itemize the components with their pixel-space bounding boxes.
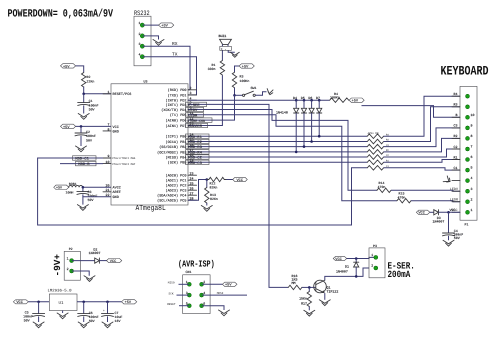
pin 21 AREF [103,188,121,195]
svg-text:P1: P1 [465,223,469,227]
svg-text:-9V+: -9V+ [52,254,63,277]
svg-text:10mH: 10mH [66,191,74,195]
pin 8 GND [103,127,119,134]
switch SW1 [243,86,257,96]
svg-text:R2: R2 [454,134,458,138]
junction D1 top [355,257,358,260]
wire R13 to ground [206,203,208,206]
resistor R3 100Kn [232,72,249,88]
svg-text:R1: R1 [454,155,458,159]
wire C7 to ground [107,316,109,322]
svg-text:+ -: + - [221,47,227,51]
power flag VCC at P1 pin1 [416,208,455,216]
svg-text:KBD-C3: KBD-C3 [188,161,202,166]
svg-text:10: 10 [106,160,110,164]
U3 pin numbers PB bank [190,132,194,162]
U3 pin labels PC0-PC5 [157,174,186,204]
junction R3/SW1/STORE-COD [233,94,236,97]
wire VCC flag to D3 [430,211,434,213]
power flag VCC at regulator input [13,300,28,305]
svg-text:KBD-B: KBD-B [78,162,90,167]
svg-text:U1: U1 [59,301,65,306]
junction C6 [82,301,85,304]
CN1 pin numbers [186,280,206,305]
resistor R12 82Kn [207,177,227,189]
ground at C2 [76,146,87,152]
connector J1 RS232 [134,10,151,66]
svg-text:(XCK/T0) PD4: (XCK/T0) PD4 [161,108,186,113]
svg-text:2: 2 [67,267,69,271]
resistor R14 470n [377,181,391,193]
wire junction to C2 [80,126,82,133]
junction R2/C1 [82,93,85,96]
svg-text:15Kn: 15Kn [299,297,307,301]
power flag +5V at R3 [239,64,254,70]
capacitor C5 100nF 50V [23,302,45,323]
capacitor C3 100nF 50V [77,187,98,202]
resistor network RN row5 [367,154,389,159]
net MISO wire CN1 pin1 [168,282,190,285]
wire P2 pin1 to D2 [72,260,95,262]
svg-text:(T1) PD5: (T1) PD5 [170,113,187,118]
ground at CN1 pin6 [219,310,230,316]
svg-text:1: 1 [371,253,373,257]
svg-text:5: 5 [471,166,473,170]
svg-text:STORE-COD: STORE-COD [187,119,205,123]
svg-text:16V: 16V [115,319,121,323]
ground at Q1 emitter [319,300,330,306]
capacitor C1 100nF 50V [78,99,99,111]
wire junction to C1 [83,94,85,103]
svg-text:3: 3 [186,291,188,295]
svg-text:+5V: +5V [161,24,168,29]
wire D2 to VCC flag [99,260,106,262]
svg-text:C2: C2 [454,145,458,149]
svg-text:7: 7 [471,145,473,149]
ground at C1 [78,114,89,120]
svg-text:BUZZER: BUZZER [188,124,202,129]
P1 pin numbers [471,113,475,212]
svg-text:(MISO) PB4: (MISO) PB4 [165,155,186,160]
svg-text:2: 2 [371,264,373,268]
svg-text:GND: GND [113,129,119,134]
wire C3 to ground [82,197,84,205]
U3 pin labels PB0-PB5 [157,135,186,166]
svg-text:50V: 50V [89,108,95,112]
pin 22 GND [106,193,119,200]
wire Q1 emitter to ground [324,293,326,300]
svg-text:+5V: +5V [63,125,70,130]
svg-text:6: 6 [471,155,473,159]
svg-text:MM: MM [292,281,296,285]
U3 pin labels PD0-PD7 [161,88,186,129]
svg-text:1N4148: 1N4148 [276,110,288,114]
resistor R15 470n [397,191,411,203]
net LEDV wire PD4 [188,110,377,191]
svg-text:(ICP1) PB0: (ICP1) PB0 [165,135,186,140]
power flag VCC at R12 [233,177,248,183]
wire C5 to ground [38,316,40,322]
ground at RS232 pin2 [153,40,164,46]
svg-text:330n: 330n [208,67,216,71]
svg-text:POWERDOWN= 0,063mA/9V: POWERDOWN= 0,063mA/9V [8,7,115,20]
svg-text:9: 9 [108,154,110,158]
resistor R1 330n [208,61,225,76]
ground at U1 [57,313,68,319]
wire C3 to GND pin 22 [83,194,111,196]
resistor R17 15Kn [299,287,311,306]
wire R4 to +5V [348,99,350,101]
op IC U3 ATmega8L [111,80,188,213]
svg-text:50V: 50V [89,319,95,323]
diode D7 1N4148 [316,96,322,137]
resistor R4 100Kn [330,92,349,103]
svg-text:P2: P2 [69,247,73,251]
svg-text:R4: R4 [454,92,458,96]
svg-text:1: 1 [471,208,473,212]
junction C5 [37,301,40,304]
svg-text:22: 22 [106,193,110,197]
resistor network RN row2 [367,139,389,144]
svg-text:1N4007: 1N4007 [336,270,348,274]
wire R2 to RESET pin [84,87,111,94]
power flag +5V at R4 [349,98,364,104]
power flag +5V at RS232 [159,23,174,29]
capacitor C2 100nF 50V [75,130,96,142]
junction C7 [106,301,109,304]
resistor network RN row3 [367,144,389,149]
wire C1 to ground [83,105,85,113]
junction VCC/C4 [447,211,450,214]
net KBD-C3 wire PB5 [188,161,367,163]
svg-text:LEDR: LEDR [450,198,458,203]
svg-text:VCC: VCC [450,208,456,212]
net SCK wire CN1 pin3 [169,292,190,295]
net label LEDV at PD4 [186,107,204,113]
pin 10 XTAL2 PB7 [103,160,136,166]
net KBD-C2 wire PB4 [188,156,367,158]
svg-text:2: 2 [190,86,192,90]
regulator U1 LM2936-5.0 [48,289,78,311]
ground at R13 [201,206,212,212]
net label E-SER at PD3 [186,102,207,108]
U3 right pin stubs PD0-PD7 pins 2,3,4,5,6,11,12,13 [188,90,197,126]
ground at P1 pin 4 [443,176,452,185]
svg-text:(SS/OC1B) PB2: (SS/OC1B) PB2 [159,145,186,150]
capacitor C7 10uF 16V polarized [102,302,123,323]
inductor BOB1 10mH [54,182,83,195]
diode D6 1N4148 [308,96,314,143]
power flag +5V at U1 output [122,300,137,306]
net TX wire RS232 pin4 to PD1 [142,52,196,95]
ground at SW1 [266,89,273,96]
svg-text:+5V: +5V [56,186,62,190]
svg-text:100Kn: 100Kn [240,79,250,83]
svg-text:50V: 50V [86,138,92,142]
wire R1 to BUZZER row [220,75,222,125]
net label KBD-R4 [186,150,210,156]
net BUZZER wire PD7 [188,125,222,127]
svg-text:BUZ1: BUZ1 [219,34,227,38]
svg-text:D1: D1 [345,264,349,268]
svg-text:R3: R3 [454,103,458,107]
svg-text:10: 10 [471,113,475,117]
power flag +5V at CN1 [222,282,237,288]
svg-text:SCK: SCK [169,292,174,295]
wire RN row5 to keyboard pin C2 [384,149,460,157]
svg-text:R17: R17 [301,302,307,306]
net divider wire PC5 to R12/R13 [188,180,207,201]
wire +5V to R2 [76,66,84,73]
svg-text:RX: RX [172,41,178,47]
resistor R2 22Kn [82,73,95,88]
svg-text:B: B [456,113,458,117]
ground at R17 [304,310,315,316]
svg-text:GND: GND [113,195,119,200]
wire +5V to R3 [235,66,240,72]
net E-SER wire PD3 [188,104,288,287]
wire U1 output to +5V flag [77,301,122,303]
net label KBD-R1 [186,134,210,140]
net label KBD-C1 at pin9 [73,156,97,162]
title POWERDOWN annotation [8,7,115,20]
svg-text:(TXD) PD1: (TXD) PD1 [168,93,187,98]
svg-text:VCC: VCC [335,257,341,262]
svg-text:TIP122: TIP122 [327,289,339,293]
resistor R16 1K5 [288,274,302,290]
transistor Q1 TIP122 [314,280,339,293]
svg-text:7: 7 [108,122,110,126]
resistor network RN row6 [367,160,389,165]
svg-text:+5V: +5V [242,64,249,69]
svg-text:LEDV: LEDV [450,187,459,192]
svg-text:KBD-C1: KBD-C1 [75,157,89,162]
ground at C5 [33,322,44,328]
svg-text:24: 24 [190,176,194,180]
net label STORE-COD at PD6 [186,118,213,123]
svg-text:(INT1) PD3: (INT1) PD3 [165,103,186,108]
svg-text:82Kn: 82Kn [210,186,218,190]
svg-text:3: 3 [471,187,473,191]
svg-text:3: 3 [190,91,192,95]
P1 pin stubs [452,96,460,212]
wire R14 to keyboard pin LEDV [391,189,460,192]
svg-text:(ADC0) PC0: (ADC0) PC0 [165,174,186,179]
wire RS232 pin1 to +5V [142,24,158,26]
net KBD-B wire pin10 [60,163,103,165]
U3 pin numbers PD bank [190,86,194,126]
svg-text:(SCK) PB5: (SCK) PB5 [168,161,187,166]
svg-text:SW1: SW1 [251,86,257,90]
wire BOB1 to AVCC pin 20 [83,186,111,188]
ground at C3 [77,205,88,211]
wire P2 pin2 to ground [72,271,90,276]
wire D3 to P1 VCC pin [439,211,461,213]
pin 9 XTAL1 PB6 [103,154,136,160]
svg-text:+5V: +5V [125,300,132,305]
svg-text:1: 1 [108,90,110,94]
net label KBD-C3 [186,160,210,166]
svg-text:9: 9 [471,124,473,128]
net KBD-C1 wire pin9 loop around MCU [38,158,368,225]
net RX wire RS232 pin3 to PD0 [142,41,190,90]
svg-text:1: 1 [67,257,69,261]
svg-text:27: 27 [190,191,194,195]
capacitor C6 100nF 50V [78,302,99,323]
svg-text:23: 23 [190,171,194,175]
net RESET wire CN1 pin5 [167,303,189,306]
svg-text:50V: 50V [88,198,94,202]
svg-text:TX: TX [172,52,178,58]
svg-text:+5V: +5V [352,99,359,104]
wire R12 to VCC flag [226,179,232,181]
wire RN row7 to keyboard pin C1 [384,168,460,170]
svg-text:VCC: VCC [237,178,243,183]
svg-text:82Kn: 82Kn [210,197,218,201]
net KBD-R2 wire PB1 [188,141,367,143]
power flag +5V at R2 [61,64,76,70]
svg-text:P3: P3 [373,244,377,248]
svg-text:(OC1A) PB1: (OC1A) PB1 [165,140,186,145]
wire R16 to Q1 base [302,286,316,288]
svg-text:(ADC1) PC1: (ADC1) PC1 [165,179,186,184]
wire buzzer minus to ground [228,50,235,52]
pin 7 VCC [108,122,119,129]
buzzer BUZ1 [219,34,232,51]
svg-text:(AIN0) PD6: (AIN0) PD6 [165,119,186,124]
wire C2 to ground [80,136,82,146]
wire RS232 pin2 to ground [142,36,158,40]
label E-SER. 200mA [388,261,415,281]
svg-text:ATmega8L: ATmega8L [136,204,166,212]
svg-text:2: 2 [203,280,205,284]
net MOSI wire CN1 pin4 [202,292,247,295]
capacitor C4 100nF 50V [443,212,464,240]
svg-text:RESET/PC6: RESET/PC6 [113,92,132,97]
power flag VCC at D2 [107,259,122,265]
wire RN row4 to keyboard pin R2 [384,138,460,152]
net LEDR wire PD5 [188,115,397,201]
net label KBD-R2 [186,139,210,145]
wire RN row1 to keyboard pin R4 [384,96,460,136]
wire CN1 pin2 to +5V [202,283,223,285]
svg-text:1: 1 [186,280,188,284]
svg-text:(RXD) PD0: (RXD) PD0 [168,88,187,93]
svg-text:4: 4 [203,291,205,295]
junction R12/R13 [206,178,209,181]
net label KBD-B at pin10 [76,161,97,167]
ground at buzzer [230,52,239,57]
diode D2 1N4007 [89,247,101,263]
connector CN1 AVR-ISP [183,270,210,313]
svg-text:C3: C3 [454,124,458,128]
net STORE-COD wire PD6 to SW1 junction [188,95,235,120]
wire junction to SW1 [235,94,243,96]
connector P3 E-SER [369,244,385,278]
svg-text:+: + [103,310,105,313]
ground at C7 [102,322,113,328]
junction BOB1/C3 [82,186,85,189]
svg-text:(AIN1) PD7: (AIN1) PD7 [165,124,186,129]
wire C4 to ground [448,236,450,241]
net label BUZZER at PD7 [186,123,208,129]
power flag +5V at VCC pin [61,124,76,130]
net B wire PD2 to diodes and R4 [188,99,330,101]
diode D5 1N4148 [301,96,307,148]
svg-text:(SCL/ADC5) PC5: (SCL/ADC5) PC5 [157,199,186,204]
resistor R13 82Kn [205,180,218,204]
net label KBD-R3 [186,144,210,150]
svg-text:20: 20 [106,183,110,187]
wire R17 to ground [308,307,310,311]
svg-text:VCC: VCC [418,211,424,216]
resistor network RN row7 [367,165,389,170]
wire RN row2 to keyboard pin R3 [384,107,460,142]
svg-text:25: 25 [190,181,194,185]
wire Q1 collector to P3 pin2 [325,268,369,280]
ground at P2 pin2 [84,276,95,282]
wire R3 to junction [234,88,236,96]
svg-text:XTAL2/TOSC2 PB7: XTAL2/TOSC2 PB7 [112,163,136,166]
wire R15 to keyboard pin LEDR [411,201,460,202]
svg-text:50V: 50V [24,319,30,323]
svg-text:(SDA/ADC4) PC4: (SDA/ADC4) PC4 [157,194,186,199]
svg-text:50V: 50V [454,236,460,240]
resistor network RN 47Kn row1 [367,132,389,139]
net KBD-R4 wire PB3 [188,151,367,153]
svg-text:KEYBOARD: KEYBOARD [441,65,489,79]
wire VCC to P3 pin1 [347,257,376,258]
net label LEDR at PD5 [186,113,204,119]
svg-text:2: 2 [471,197,473,201]
svg-text:22Kn: 22Kn [87,79,95,83]
svg-text:VCC: VCC [113,125,119,130]
svg-text:CN1: CN1 [186,270,192,274]
connector P2 9V input [64,247,80,280]
svg-text:+5V: +5V [225,283,232,288]
connector P1 KEYBOARD [460,86,477,226]
svg-text:8: 8 [471,134,473,138]
svg-text:C1: C1 [454,166,458,170]
wire buzzer plus to R1 [221,50,223,60]
svg-text:(AVR-ISP): (AVR-ISP) [178,260,215,271]
svg-text:5: 5 [186,302,188,306]
CN1 green pins [187,282,203,307]
P1 green pins 12..1 [466,94,470,214]
junction VCC/C2 [80,125,83,128]
svg-text:(ADC2) PC2: (ADC2) PC2 [165,184,186,189]
svg-text:(ADC3) PC3: (ADC3) PC3 [165,189,186,194]
junction R16/R17 [308,286,311,289]
wire +5V to VCC pin 7 [76,125,111,127]
svg-text:8: 8 [108,127,110,131]
svg-text:+5V: +5V [63,64,70,69]
svg-text:MOSI: MOSI [217,292,224,295]
svg-text:AREF: AREF [113,190,121,195]
U3 right pin stubs PC0-PC5 pins 23-28 [188,175,197,200]
svg-text:MISO: MISO [168,282,175,285]
svg-text:1N4007: 1N4007 [433,219,445,223]
pin 1 RESET/PC6 [103,90,131,97]
svg-text:LM2936-5.0: LM2936-5.0 [48,289,73,294]
svg-text:21: 21 [106,188,110,192]
svg-text:VCC: VCC [16,300,22,305]
diode D1 1N4007 flyback [336,259,359,278]
ground at C6 [78,322,89,328]
svg-text:RESET: RESET [167,303,176,306]
wire C6 to ground [83,316,85,322]
svg-text:(OC2/MOSI) PB3: (OC2/MOSI) PB3 [157,150,186,155]
